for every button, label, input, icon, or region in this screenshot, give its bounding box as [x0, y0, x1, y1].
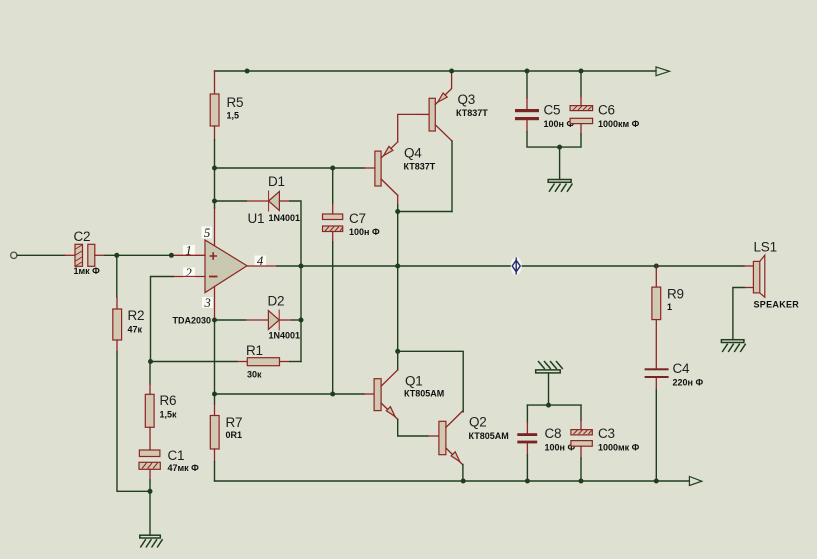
svg-text:КТ837Т: КТ837Т	[456, 108, 488, 118]
svg-text:C4: C4	[673, 361, 691, 376]
wire C4 to bottom rail	[655, 390, 657, 481]
wire R9 bottom lead to C4	[655, 320, 657, 369]
svg-text:47к: 47к	[128, 325, 143, 335]
wire Q1 emitter to Q2 base	[398, 419, 428, 436]
node R9 output junction	[654, 264, 659, 269]
transistor Q4 collector	[381, 179, 398, 195]
net marker blue diamond	[511, 257, 522, 275]
power arrow bottom rail	[689, 477, 701, 486]
transistor Q2 KT805AM base bar	[439, 421, 446, 454]
svg-text:30к: 30к	[247, 370, 262, 380]
wire ground stem	[559, 147, 561, 179]
svg-text:C5: C5	[544, 103, 561, 118]
wire C2 to pin1	[105, 254, 173, 256]
node D1 junction	[212, 199, 217, 204]
resistor R2	[113, 309, 122, 340]
wire	[332, 242, 334, 394]
wire Q1 base row	[215, 393, 365, 395]
wire	[332, 204, 334, 214]
pin 5 label	[202, 227, 213, 239]
capacitor C1	[139, 448, 199, 473]
svg-text:R2: R2	[128, 308, 145, 323]
wire output row	[277, 265, 744, 267]
node collector tie junction	[395, 209, 400, 214]
node Q2 emitter rail junction	[461, 479, 466, 484]
wire Q4 emitter to Q3 base	[398, 114, 418, 141]
wire	[526, 98, 528, 109]
resistor R7	[210, 416, 219, 450]
transistor Q4 KT837T base bar	[375, 151, 381, 186]
wire C5 to ground node	[527, 132, 560, 147]
svg-text:R1: R1	[246, 343, 263, 358]
wire C5 bottom lead	[526, 120, 528, 132]
svg-text:C8: C8	[545, 426, 562, 441]
svg-text:C6: C6	[598, 103, 615, 118]
wire R6 bottom lead	[149, 427, 151, 450]
wire C2 right lead	[95, 254, 105, 256]
svg-text:Q1: Q1	[405, 374, 423, 389]
ground GND3 inverted	[536, 361, 563, 373]
wire R7 to bottom rail	[214, 462, 216, 481]
capacitor C5	[515, 103, 574, 130]
wire R1 left lead	[237, 361, 247, 363]
wire Q3 collector down	[451, 141, 453, 212]
ground GND1	[140, 535, 163, 547]
wire	[116, 297, 118, 309]
capacitor C6	[570, 103, 640, 130]
wire	[397, 205, 399, 266]
node R7 junction	[212, 392, 217, 397]
wire C8 C3 top row	[527, 404, 581, 406]
wire inverted ground stem	[548, 373, 550, 405]
node input junction R2	[114, 253, 119, 258]
node ground junction	[148, 489, 153, 494]
node C7 bottom junction	[330, 392, 335, 397]
wire D2 left lead	[246, 319, 269, 321]
wire D1 row from supply column	[215, 200, 247, 202]
label Q1	[404, 374, 444, 399]
ground GND4 speaker	[721, 340, 745, 352]
svg-text:SPEAKER: SPEAKER	[754, 300, 800, 310]
wire	[580, 96, 582, 106]
wire	[149, 384, 151, 394]
svg-text:R6: R6	[160, 393, 177, 408]
wire	[65, 254, 75, 256]
wire D1 left lead	[246, 200, 269, 202]
wire bottom rail	[215, 480, 690, 482]
svg-text:100н Ф: 100н Ф	[349, 227, 380, 237]
wire D2 right lead	[279, 319, 292, 321]
wire Q4 collector to output	[397, 195, 399, 205]
wire output to Q1 collector	[397, 266, 399, 370]
node output junction	[299, 264, 304, 269]
wire C8 bottom lead	[526, 443, 528, 455]
resistor R1	[247, 358, 279, 366]
transistor Q3 emitter arrow	[438, 93, 447, 102]
svg-text:Q2: Q2	[469, 415, 487, 430]
wire C1 to ground node	[149, 480, 151, 491]
pin 1 label	[183, 245, 195, 256]
wire C8 top lead	[526, 405, 528, 422]
node feedback junction	[148, 359, 153, 364]
svg-text:1000мк Ф: 1000мк Ф	[598, 443, 640, 453]
transistor Q2 emitter	[446, 448, 463, 464]
wire C7 top lead	[332, 168, 334, 204]
transistor Q4 emitter	[381, 142, 398, 158]
wire top positive rail	[215, 70, 657, 72]
transistor Q1 emitter	[381, 403, 398, 419]
node C3 rail junction	[579, 479, 584, 484]
wire C8 to bottom rail	[526, 455, 528, 481]
pin 2 label	[183, 268, 195, 279]
node pin1 junction	[169, 253, 174, 258]
wire Q4 base pin	[364, 167, 375, 169]
svg-text:КТ805АМ: КТ805АМ	[404, 389, 444, 399]
svg-text:D2: D2	[268, 294, 285, 309]
svg-text:C1: C1	[168, 448, 185, 463]
svg-text:D1: D1	[268, 174, 285, 189]
svg-text:R7: R7	[226, 415, 243, 430]
svg-text:Q4: Q4	[404, 146, 422, 161]
node drive junction	[212, 166, 217, 171]
svg-text:LS1: LS1	[754, 240, 777, 255]
wire Q2 emitter to bottom rail	[462, 464, 464, 481]
svg-text:5: 5	[204, 226, 210, 240]
node top rail junction x247	[245, 69, 250, 74]
svg-text:Q3: Q3	[458, 92, 476, 107]
wire	[214, 140, 216, 208]
wire Q2 collector tie	[398, 351, 464, 412]
resistor R5	[210, 94, 219, 126]
wire pin3 column down to R7	[214, 320, 216, 404]
capacitor C2	[74, 229, 101, 276]
wire Q1 base pin	[364, 393, 374, 395]
transistor Q1 collector	[381, 370, 398, 386]
transistor Q2 collector	[446, 411, 463, 427]
node D2 junction	[299, 318, 304, 323]
label Q4	[404, 146, 436, 172]
transistor Q3 emitter	[435, 71, 451, 105]
node C6 rail junction	[579, 69, 584, 74]
svg-text:R9: R9	[667, 287, 684, 302]
node Q1-Q2 collector junction	[395, 349, 400, 354]
wire speaker top pin	[744, 265, 753, 267]
wire speaker bottom pin	[744, 287, 753, 289]
wire output column D1-D2-R1	[300, 266, 302, 362]
node C8-C3 top junction	[546, 403, 551, 408]
transistor Q4 emitter arrow	[384, 146, 393, 155]
svg-text:1N4001: 1N4001	[269, 331, 301, 341]
resistor R9	[652, 287, 661, 320]
diode D2	[268, 294, 301, 341]
svg-text:R5: R5	[227, 95, 244, 110]
wire R2 bottom lead	[116, 340, 118, 352]
wire collector tie row	[398, 211, 452, 213]
node C8 rail junction	[525, 479, 530, 484]
svg-text:2: 2	[186, 266, 192, 280]
resistor R6	[145, 394, 154, 427]
wire C1 bottom lead	[149, 469, 151, 480]
wire feedback row to R1	[151, 361, 238, 363]
wire	[526, 422, 528, 433]
wire ground stem	[149, 491, 151, 535]
wire C3 top lead	[580, 405, 582, 420]
pin 4 lead	[247, 265, 277, 267]
capacitor C7	[323, 211, 380, 237]
node C4 rail junction	[654, 479, 659, 484]
wire speaker to ground	[733, 288, 744, 340]
wire	[580, 420, 582, 430]
svg-text:U1: U1	[248, 211, 265, 226]
wire C3 to bottom rail	[580, 458, 582, 481]
svg-text:1N4001: 1N4001	[269, 213, 301, 223]
wire R7 top lead	[214, 404, 216, 416]
svg-text:3: 3	[204, 296, 211, 310]
svg-text:0R1: 0R1	[226, 430, 243, 440]
wire D1 to output column	[290, 201, 301, 266]
svg-text:C7: C7	[349, 211, 366, 226]
node C5 rail junction	[525, 69, 530, 74]
ground GND2	[548, 180, 572, 192]
svg-text:1: 1	[667, 302, 672, 312]
power arrow top rail	[656, 67, 670, 76]
node Q3 emitter rail junction	[449, 69, 454, 74]
wire pin2 feedback column	[151, 277, 174, 362]
svg-text:1мк Ф: 1мк Ф	[74, 266, 101, 276]
pin 2 lead	[173, 276, 205, 278]
svg-text:1,5: 1,5	[227, 111, 240, 121]
wire R6 top lead	[149, 362, 151, 385]
wire R1 right lead	[280, 361, 291, 363]
svg-text:C2: C2	[74, 229, 91, 244]
wire C6 bottom lead	[580, 124, 582, 134]
capacitor C4	[645, 361, 704, 388]
wire C6 top lead	[580, 71, 582, 96]
wire input to C2	[17, 254, 65, 256]
node Q collector output junction	[395, 264, 400, 269]
transistor Q3 collector	[435, 125, 452, 141]
wire drive row y168 to Q4 base	[215, 167, 365, 169]
transistor Q3 KT837T base bar	[429, 98, 435, 131]
wire R2 top lead	[116, 255, 118, 297]
svg-text:220н Ф: 220н Ф	[673, 378, 704, 388]
speaker LS1	[753, 240, 799, 310]
wire R1 to output column	[290, 361, 301, 363]
node pin3 D2 junction	[212, 318, 217, 323]
pin 3 lead	[214, 287, 216, 318]
wire R7 bottom lead	[214, 449, 216, 462]
diode D1	[268, 174, 300, 223]
wire C6 to ground node	[560, 134, 581, 147]
svg-text:C3: C3	[598, 426, 615, 441]
input terminal circle	[11, 252, 17, 258]
svg-text:КТ805АМ: КТ805АМ	[469, 431, 509, 441]
pin 4 label	[255, 256, 267, 267]
wire C3 bottom lead	[580, 446, 582, 458]
svg-text:1,5к: 1,5к	[160, 410, 178, 420]
label Q2	[469, 415, 509, 442]
transistor Q1 KT805AM base bar	[374, 379, 381, 411]
wire Q2 base pin	[428, 435, 439, 437]
wire D2 to output column	[292, 319, 301, 321]
capacitor C3	[571, 426, 640, 453]
op-amp U1 TDA2030	[172, 211, 264, 326]
pin 3 label	[202, 297, 213, 308]
wire R2 down to ground row	[117, 352, 150, 491]
node C5-C6 ground junction	[557, 145, 562, 150]
label Q3	[456, 92, 488, 118]
wire R5 bottom to op-amp pin 5	[214, 126, 216, 245]
transistor Q2 emitter arrow	[451, 452, 460, 462]
transistor Q1 emitter arrow	[386, 407, 395, 417]
wire D2 row from pin3 column	[215, 319, 246, 321]
node C7 top junction	[330, 166, 335, 171]
pin 1 lead	[173, 254, 205, 256]
svg-text:47мк Ф: 47мк Ф	[168, 463, 200, 473]
capacitor C8	[517, 426, 575, 453]
svg-text:TDA2030: TDA2030	[172, 316, 211, 326]
wire D1 right lead	[279, 200, 290, 202]
wire R9 top lead	[655, 266, 657, 287]
svg-text:КТ837Т: КТ837Т	[404, 162, 436, 172]
svg-text:1000км Ф: 1000км Ф	[598, 119, 640, 129]
wire C5 top lead	[526, 71, 528, 98]
wire C4 bottom lead	[655, 378, 657, 390]
wire Q3 base pin	[418, 113, 429, 115]
wire C7 bottom lead down to Q1 base row	[332, 232, 334, 243]
